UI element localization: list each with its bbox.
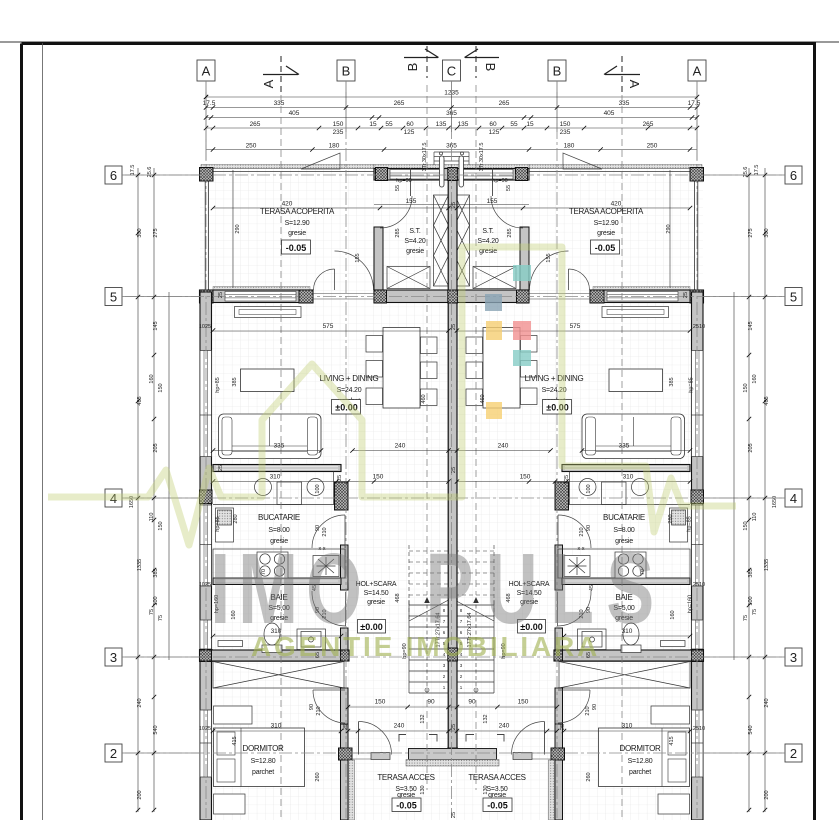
svg-text:hp=85: hp=85 xyxy=(215,377,221,392)
svg-text:180: 180 xyxy=(564,143,575,150)
svg-text:17.5: 17.5 xyxy=(130,165,136,176)
eave wedge left xyxy=(301,153,340,169)
row5 wall: left segment xyxy=(213,287,310,291)
entry column rounded xyxy=(440,156,445,187)
terrace french doors xyxy=(314,269,335,290)
svg-text:130: 130 xyxy=(420,785,426,794)
sofa xyxy=(219,414,322,459)
svg-text:hp=85: hp=85 xyxy=(689,377,695,392)
svg-text:AGENTIE IMOBILIARA: AGENTIE IMOBILIARA xyxy=(251,631,600,662)
svg-text:25: 25 xyxy=(218,465,224,471)
svg-text:240: 240 xyxy=(395,443,406,450)
svg-text:130: 130 xyxy=(483,785,489,794)
row5 window strip xyxy=(225,292,296,302)
row 5 xyxy=(125,296,783,298)
hall west wall seg2 xyxy=(341,628,349,650)
svg-text:415: 415 xyxy=(232,736,238,745)
axis grid xyxy=(125,82,783,818)
coffee table xyxy=(241,369,295,392)
section cut markers xyxy=(263,46,640,92)
svg-text:S=12.90: S=12.90 xyxy=(594,220,619,227)
svg-text:240: 240 xyxy=(764,698,770,707)
svg-text:290: 290 xyxy=(235,224,241,233)
svg-text:385: 385 xyxy=(232,377,238,386)
svg-text:17.5: 17.5 xyxy=(203,100,216,107)
svg-text:210: 210 xyxy=(585,706,591,715)
svg-text:DORMITOR: DORMITOR xyxy=(619,744,661,753)
svg-text:A: A xyxy=(693,64,702,79)
svg-text:200: 200 xyxy=(137,790,143,799)
row 2 xyxy=(125,752,783,754)
svg-text:90: 90 xyxy=(592,704,598,710)
svg-text:160: 160 xyxy=(670,610,676,619)
svg-text:hp=160: hp=160 xyxy=(688,595,694,614)
svg-text:25: 25 xyxy=(683,292,689,298)
svg-text:150: 150 xyxy=(560,121,571,128)
axis A xyxy=(205,82,207,818)
svg-text:460: 460 xyxy=(480,394,486,403)
axis C xyxy=(451,82,453,818)
row3 X band xyxy=(213,662,344,689)
hall west wall seg1 xyxy=(341,545,349,590)
kitchen bottom counter xyxy=(213,549,345,578)
svg-text:335: 335 xyxy=(619,443,630,450)
svg-text:75: 75 xyxy=(158,615,164,621)
svg-text:25: 25 xyxy=(451,467,457,473)
svg-text:405: 405 xyxy=(604,110,615,117)
svg-text:275: 275 xyxy=(153,228,159,237)
svg-text:-0.05: -0.05 xyxy=(286,243,307,253)
pier row5 left xyxy=(200,290,214,303)
svg-text:150: 150 xyxy=(743,521,749,530)
svg-text:55: 55 xyxy=(385,121,393,128)
svg-text:285: 285 xyxy=(395,228,401,237)
svg-text:-0.05: -0.05 xyxy=(595,243,616,253)
svg-text:100: 100 xyxy=(153,596,159,605)
secondary dashed axes xyxy=(281,85,622,818)
svg-text:575: 575 xyxy=(323,323,334,330)
svg-text:132: 132 xyxy=(420,714,426,723)
entry steps above wall xyxy=(434,152,452,165)
svg-text:S.T.: S.T. xyxy=(482,228,494,235)
row3 wall xyxy=(200,650,350,661)
svg-text:260: 260 xyxy=(315,772,321,781)
watermark IMO PULS xyxy=(210,533,666,644)
svg-text:25: 25 xyxy=(560,724,566,730)
pier row5 mid xyxy=(299,290,313,303)
central party wall xyxy=(448,169,457,761)
svg-text:25: 25 xyxy=(451,724,457,730)
svg-text:260: 260 xyxy=(586,772,592,781)
svg-text:55: 55 xyxy=(506,185,512,191)
svg-text:S.T.: S.T. xyxy=(409,228,421,235)
bath window xyxy=(200,620,212,649)
svg-text:BUCATARIE: BUCATARIE xyxy=(258,513,300,522)
pier party wall top xyxy=(448,168,458,181)
corner brackets xyxy=(399,735,437,742)
svg-text:B: B xyxy=(483,63,498,72)
svg-text:150: 150 xyxy=(158,521,164,530)
axis A right xyxy=(696,82,698,818)
svg-text:25: 25 xyxy=(451,324,457,330)
svg-text:2: 2 xyxy=(110,746,117,761)
kitchen door arc xyxy=(312,515,345,548)
svg-text:25: 25 xyxy=(343,724,349,730)
living TV cabinet xyxy=(235,307,302,318)
svg-text:415: 415 xyxy=(669,736,675,745)
row4 kitchen wall xyxy=(213,465,341,472)
row 3 xyxy=(125,656,783,658)
ST shaft X vertical xyxy=(434,195,449,286)
svg-text:540: 540 xyxy=(748,725,754,734)
svg-text:100: 100 xyxy=(315,484,321,493)
svg-text:135: 135 xyxy=(436,121,447,128)
pier row4 on left wall xyxy=(200,490,213,504)
svg-text:3Tr.30x17.5: 3Tr.30x17.5 xyxy=(479,143,485,172)
svg-text:15: 15 xyxy=(526,121,534,128)
axis B right xyxy=(556,82,558,818)
svg-text:75: 75 xyxy=(743,615,749,621)
bath door arc xyxy=(312,591,346,626)
svg-text:TERASA ACCES: TERASA ACCES xyxy=(377,773,434,782)
ST left wall xyxy=(374,227,383,303)
svg-text:285: 285 xyxy=(507,228,513,237)
svg-text:1335: 1335 xyxy=(137,559,143,571)
svg-text:6: 6 xyxy=(790,168,797,183)
logo pulse-house outline xyxy=(48,247,736,545)
svg-text:gresie: gresie xyxy=(597,230,615,237)
svg-text:DORMITOR: DORMITOR xyxy=(242,744,284,753)
svg-text:90: 90 xyxy=(427,699,435,706)
ST door arc xyxy=(380,196,412,228)
svg-text:265: 265 xyxy=(394,100,405,107)
terrace door threshold xyxy=(313,294,374,300)
svg-text:75: 75 xyxy=(149,609,155,615)
svg-text:235: 235 xyxy=(333,129,344,136)
svg-text:132: 132 xyxy=(483,714,489,723)
svg-text:265: 265 xyxy=(250,121,261,128)
entrance platform bottom xyxy=(409,749,497,760)
svg-text:2: 2 xyxy=(790,746,797,761)
room tile grid over building footprint xyxy=(200,164,703,820)
svg-text:parchet: parchet xyxy=(252,769,274,776)
terasa threshold xyxy=(349,753,371,759)
svg-text:1025: 1025 xyxy=(199,582,211,588)
svg-text:280: 280 xyxy=(233,514,239,523)
svg-text:A: A xyxy=(261,79,276,88)
terasa door sill block xyxy=(371,753,390,760)
svg-text:60: 60 xyxy=(489,121,497,128)
svg-text:468: 468 xyxy=(395,593,401,602)
exterior left wall with windows xyxy=(200,292,212,820)
svg-text:540: 540 xyxy=(153,725,159,734)
terrace slab edge thin rect xyxy=(201,165,374,169)
svg-text:240: 240 xyxy=(498,443,509,450)
svg-text:hp=85: hp=85 xyxy=(215,516,221,531)
svg-text:1025: 1025 xyxy=(199,324,211,330)
svg-text:60: 60 xyxy=(406,121,414,128)
kitchen window xyxy=(200,505,212,586)
svg-text:LIVING + DINING: LIVING + DINING xyxy=(525,374,584,383)
dormitor bed xyxy=(214,728,305,787)
svg-text:4: 4 xyxy=(790,491,797,506)
svg-text:155: 155 xyxy=(355,253,361,262)
svg-text:gresie: gresie xyxy=(406,248,424,255)
pier party wall stairs xyxy=(448,648,458,661)
bath toilet xyxy=(262,623,282,653)
svg-text:275: 275 xyxy=(748,228,754,237)
ST undertruss X band xyxy=(387,267,430,289)
svg-text:PULS: PULS xyxy=(426,533,667,644)
svg-text:310: 310 xyxy=(270,474,281,481)
top thin rule xyxy=(0,41,839,43)
chairs left col xyxy=(366,336,437,406)
svg-text:150: 150 xyxy=(375,699,386,706)
stairs xyxy=(409,545,449,693)
svg-text:B: B xyxy=(342,64,351,79)
svg-text:240: 240 xyxy=(137,698,143,707)
bath radiator xyxy=(218,641,243,647)
right unit (mirrored copy of left unit graphics) xyxy=(452,152,704,820)
svg-text:145: 145 xyxy=(748,321,754,330)
svg-text:S=12.90: S=12.90 xyxy=(285,220,310,227)
terasa side hatch strip xyxy=(349,760,355,820)
pier ST top-left xyxy=(376,168,388,181)
svg-text:135: 135 xyxy=(458,121,469,128)
pier row3 on left wall xyxy=(200,650,213,662)
svg-text:1335: 1335 xyxy=(764,559,770,571)
svg-text:145: 145 xyxy=(153,321,159,330)
svg-text:150: 150 xyxy=(158,383,164,392)
eave wedge right xyxy=(563,153,602,169)
ST top wall xyxy=(374,165,452,169)
svg-text:155: 155 xyxy=(487,198,498,205)
svg-text:240: 240 xyxy=(394,723,405,730)
svg-text:S=4.20: S=4.20 xyxy=(404,238,425,245)
svg-text:2510: 2510 xyxy=(693,582,705,588)
svg-text:25: 25 xyxy=(451,202,457,208)
svg-text:310: 310 xyxy=(622,723,633,730)
inner thin vertical xyxy=(42,43,44,820)
svg-text:210: 210 xyxy=(316,706,322,715)
svg-text:265: 265 xyxy=(499,100,510,107)
pier hall-kitchen xyxy=(335,482,349,510)
svg-text:385: 385 xyxy=(669,377,675,386)
svg-text:240: 240 xyxy=(499,723,510,730)
svg-text:17.5: 17.5 xyxy=(754,165,760,176)
svg-text:250: 250 xyxy=(647,143,658,150)
dormitor east wall xyxy=(341,688,349,724)
row 4 xyxy=(125,497,783,499)
row number boxes left xyxy=(105,166,122,184)
svg-text:100: 100 xyxy=(586,484,592,493)
svg-text:155: 155 xyxy=(406,198,417,205)
svg-text:hp=90: hp=90 xyxy=(396,178,411,184)
mid-plan dimension lines xyxy=(213,170,690,731)
svg-text:S=12.80: S=12.80 xyxy=(251,758,276,765)
svg-text:B: B xyxy=(553,64,562,79)
svg-text:A: A xyxy=(627,80,642,89)
bath shower xyxy=(297,629,326,650)
svg-text:25: 25 xyxy=(218,292,224,298)
svg-text:25.6: 25.6 xyxy=(147,167,153,178)
vertical risers at axes xyxy=(205,92,207,160)
svg-text:hp=90: hp=90 xyxy=(492,178,507,184)
svg-text:2510: 2510 xyxy=(693,726,705,732)
svg-text:15: 15 xyxy=(369,121,377,128)
svg-text:3Tr.30x17.5: 3Tr.30x17.5 xyxy=(422,143,428,172)
svg-text:25: 25 xyxy=(451,812,457,818)
pier row2 xyxy=(339,748,353,760)
dormitor dresser xyxy=(214,706,253,724)
svg-text:420: 420 xyxy=(282,201,293,208)
svg-text:-0.05: -0.05 xyxy=(487,801,508,811)
rotated small labels xyxy=(130,143,760,818)
svg-text:150: 150 xyxy=(743,383,749,392)
svg-text:150: 150 xyxy=(373,474,384,481)
svg-text:55: 55 xyxy=(510,121,518,128)
ST top window hp90 xyxy=(390,170,440,180)
svg-text:155: 155 xyxy=(546,253,552,262)
svg-text:90: 90 xyxy=(468,699,476,706)
svg-text:335: 335 xyxy=(274,443,285,450)
svg-text:420: 420 xyxy=(611,201,622,208)
svg-text:90: 90 xyxy=(586,525,592,531)
svg-text:1025: 1025 xyxy=(199,726,211,732)
svg-text:150: 150 xyxy=(520,474,531,481)
top dimension chains xyxy=(206,92,697,160)
axis letter boxes top xyxy=(105,60,802,762)
kitchen top counter xyxy=(213,479,334,505)
left margin dimension chains xyxy=(138,168,169,812)
kitchen-bath wall xyxy=(213,578,341,585)
fridge xyxy=(313,556,339,577)
svg-text:hp=85: hp=85 xyxy=(687,516,693,531)
svg-text:TERASA ACOPERITA: TERASA ACOPERITA xyxy=(260,207,335,216)
svg-text:575: 575 xyxy=(570,323,581,330)
svg-text:B: B xyxy=(405,63,420,72)
svg-text:55: 55 xyxy=(395,185,401,191)
svg-text:200: 200 xyxy=(764,790,770,799)
pier party wall row2 xyxy=(448,748,458,760)
svg-text:335: 335 xyxy=(619,100,630,107)
svg-text:205: 205 xyxy=(153,443,159,452)
svg-text:160: 160 xyxy=(149,374,155,383)
stair step numbers xyxy=(443,608,463,690)
terasa acces door xyxy=(359,722,392,755)
svg-text:-0.05: -0.05 xyxy=(396,801,417,811)
dormitor door xyxy=(313,690,345,723)
dormitor window xyxy=(200,710,212,777)
svg-text:405: 405 xyxy=(289,110,300,117)
svg-text:100: 100 xyxy=(748,596,754,605)
svg-text:5: 5 xyxy=(110,290,117,305)
svg-text:205: 205 xyxy=(748,443,754,452)
row5 wall: ST segment xyxy=(374,290,452,303)
svg-text:TERASA ACCES: TERASA ACCES xyxy=(468,773,525,782)
svg-text:3: 3 xyxy=(110,650,117,665)
svg-text:160: 160 xyxy=(752,374,758,383)
svg-text:S=12.80: S=12.80 xyxy=(628,758,653,765)
svg-text:TERASA ACOPERITA: TERASA ACOPERITA xyxy=(569,207,644,216)
svg-text:90: 90 xyxy=(309,704,315,710)
svg-text:180: 180 xyxy=(329,143,340,150)
svg-text:90: 90 xyxy=(315,525,321,531)
svg-text:2510: 2510 xyxy=(693,324,705,330)
pier A6 xyxy=(200,168,214,182)
svg-text:25: 25 xyxy=(564,475,570,481)
kitchen boiler xyxy=(216,508,234,542)
axis box stub lines xyxy=(122,81,785,753)
svg-text:IMO: IMO xyxy=(210,533,370,644)
row number boxes right xyxy=(785,166,802,184)
svg-text:gresie: gresie xyxy=(288,230,306,237)
svg-text:parchet: parchet xyxy=(629,769,651,776)
svg-text:6: 6 xyxy=(110,168,117,183)
svg-text:460: 460 xyxy=(421,394,427,403)
svg-text:235: 235 xyxy=(560,129,571,136)
svg-text:125: 125 xyxy=(404,129,415,136)
svg-text:335: 335 xyxy=(274,100,285,107)
svg-text:310: 310 xyxy=(623,474,634,481)
svg-text:3: 3 xyxy=(790,650,797,665)
svg-text:310: 310 xyxy=(271,723,282,730)
logo colored squares xyxy=(485,265,531,419)
svg-text:C: C xyxy=(447,64,456,79)
svg-text:5: 5 xyxy=(790,290,797,305)
pier party wall row5 xyxy=(448,290,458,303)
svg-text:150: 150 xyxy=(333,121,344,128)
living window 1 xyxy=(200,351,212,457)
row 6 xyxy=(125,174,783,176)
svg-text:150: 150 xyxy=(518,699,529,706)
svg-text:280: 280 xyxy=(668,514,674,523)
svg-text:A: A xyxy=(202,64,211,79)
svg-text:125: 125 xyxy=(489,129,500,136)
dining table xyxy=(383,328,420,409)
dormitor nightstand xyxy=(214,794,246,814)
axis B xyxy=(345,82,347,818)
svg-text:BUCATARIE: BUCATARIE xyxy=(603,513,645,522)
svg-text:250: 250 xyxy=(246,143,257,150)
svg-text:290: 290 xyxy=(666,224,672,233)
svg-text:75: 75 xyxy=(752,609,758,615)
svg-text:265: 265 xyxy=(643,121,654,128)
hob xyxy=(257,552,288,578)
terrace top balustrade xyxy=(205,168,374,290)
svg-text:110: 110 xyxy=(752,513,758,522)
